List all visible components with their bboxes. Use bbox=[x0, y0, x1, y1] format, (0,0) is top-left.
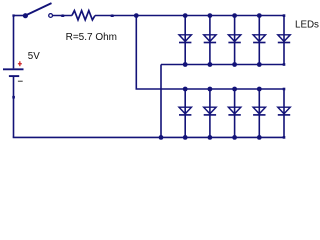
corner node anode bus right bbox=[283, 88, 286, 91]
battery plus sign bbox=[18, 61, 22, 66]
battery BT1 5V bbox=[3, 51, 40, 82]
top rail junction to lower bank feed bbox=[134, 13, 139, 18]
LED D7 bbox=[204, 107, 216, 114]
wire upper bank return (vertical to bottom rail) bbox=[160, 65, 162, 138]
wire LED D8 column bbox=[234, 89, 236, 137]
junction top rail col3 bbox=[232, 13, 237, 18]
switch S1 bbox=[12, 3, 52, 18]
wire bottom rail bbox=[13, 136, 284, 138]
battery positive plate (long bar) bbox=[3, 68, 24, 70]
junction anode bus col4 bbox=[257, 87, 262, 92]
wire LED D7 column bbox=[209, 89, 211, 137]
node B (dot after resistor) bbox=[110, 14, 114, 17]
wire LED D5 column bbox=[283, 16, 285, 65]
junction cathode bus col2 bbox=[208, 62, 213, 67]
LED D2 bbox=[204, 35, 216, 42]
wire LED D3 column bbox=[234, 16, 236, 65]
node battery+ (square dot) bbox=[12, 14, 14, 16]
wire switch output to resistor bbox=[52, 15, 72, 17]
junction top rail col1 bbox=[183, 13, 188, 18]
wire LED D10 column bbox=[283, 89, 285, 137]
wire battery negative lead down to bottom rail bbox=[13, 77, 15, 137]
svg-text:R=5.7 Ohm: R=5.7 Ohm bbox=[66, 32, 117, 43]
wire LED D6 column bbox=[184, 89, 186, 137]
battery negative plate (short thick bar) bbox=[9, 75, 19, 77]
junction dots upper cathode bus bbox=[183, 62, 286, 67]
LED D3 bbox=[228, 35, 240, 42]
battery minus sign bbox=[18, 81, 23, 82]
LED D5 bbox=[278, 35, 290, 42]
lower LED bank symbols bbox=[179, 107, 290, 115]
wire battery+ to switch pole bbox=[14, 15, 26, 17]
junction cathode bus col4 bbox=[257, 62, 262, 67]
wire upper bank cathode bus bbox=[161, 64, 284, 66]
junction bottom rail col4 bbox=[257, 135, 262, 140]
junction dots top rail bbox=[183, 13, 286, 18]
corner node cathode bus right bbox=[283, 63, 286, 66]
svg-text:5V: 5V bbox=[28, 51, 40, 62]
junction anode bus col3 bbox=[232, 87, 237, 92]
wire battery positive lead (vertical) bbox=[13, 16, 15, 69]
junction bottom rail col3 bbox=[232, 135, 237, 140]
junction bottom rail col2 bbox=[208, 135, 213, 140]
junction dots lower anode bus bbox=[183, 87, 286, 92]
junction bottom rail return bbox=[159, 135, 164, 140]
wire feed to lower LED bank (vertical + horizontal bus) bbox=[136, 16, 284, 90]
switch throw terminal (open circle) bbox=[49, 14, 53, 18]
LED D6 bbox=[179, 107, 191, 114]
wire resistor to top rail corner bbox=[95, 15, 284, 17]
lower LED bank verticals bbox=[185, 89, 284, 137]
svg-text:LEDs: LEDs bbox=[295, 20, 319, 31]
junction anode bus col2 bbox=[208, 87, 213, 92]
node A (dot before resistor) bbox=[61, 14, 65, 17]
wire LED D2 column bbox=[209, 16, 211, 65]
node on negative lead (square dot) bbox=[12, 96, 15, 99]
resistor R bbox=[72, 11, 95, 20]
switch pole junction bbox=[23, 13, 28, 18]
upper LED bank symbols bbox=[179, 35, 290, 43]
switch blade bbox=[25, 3, 51, 15]
LED D1 bbox=[179, 35, 191, 42]
corner node bottom rail right bbox=[283, 136, 286, 139]
junction bottom rail col1 bbox=[183, 135, 188, 140]
LED D4 bbox=[253, 35, 265, 42]
LED D10 bbox=[278, 107, 290, 114]
upper LED bank verticals bbox=[185, 16, 284, 65]
wire LED D4 column bbox=[258, 16, 260, 65]
junction top rail col4 bbox=[257, 13, 262, 18]
LED D8 bbox=[228, 107, 240, 114]
wire LED D1 column bbox=[184, 16, 186, 65]
wire LED D9 column bbox=[258, 89, 260, 137]
junction cathode bus col3 bbox=[232, 62, 237, 67]
LED D9 bbox=[253, 107, 265, 114]
corner node top rail right bbox=[283, 14, 286, 17]
junction anode bus col1 bbox=[183, 87, 188, 92]
junction cathode bus col1 bbox=[183, 62, 188, 67]
junction top rail col2 bbox=[208, 13, 213, 18]
junction dots bottom rail bbox=[159, 135, 286, 140]
